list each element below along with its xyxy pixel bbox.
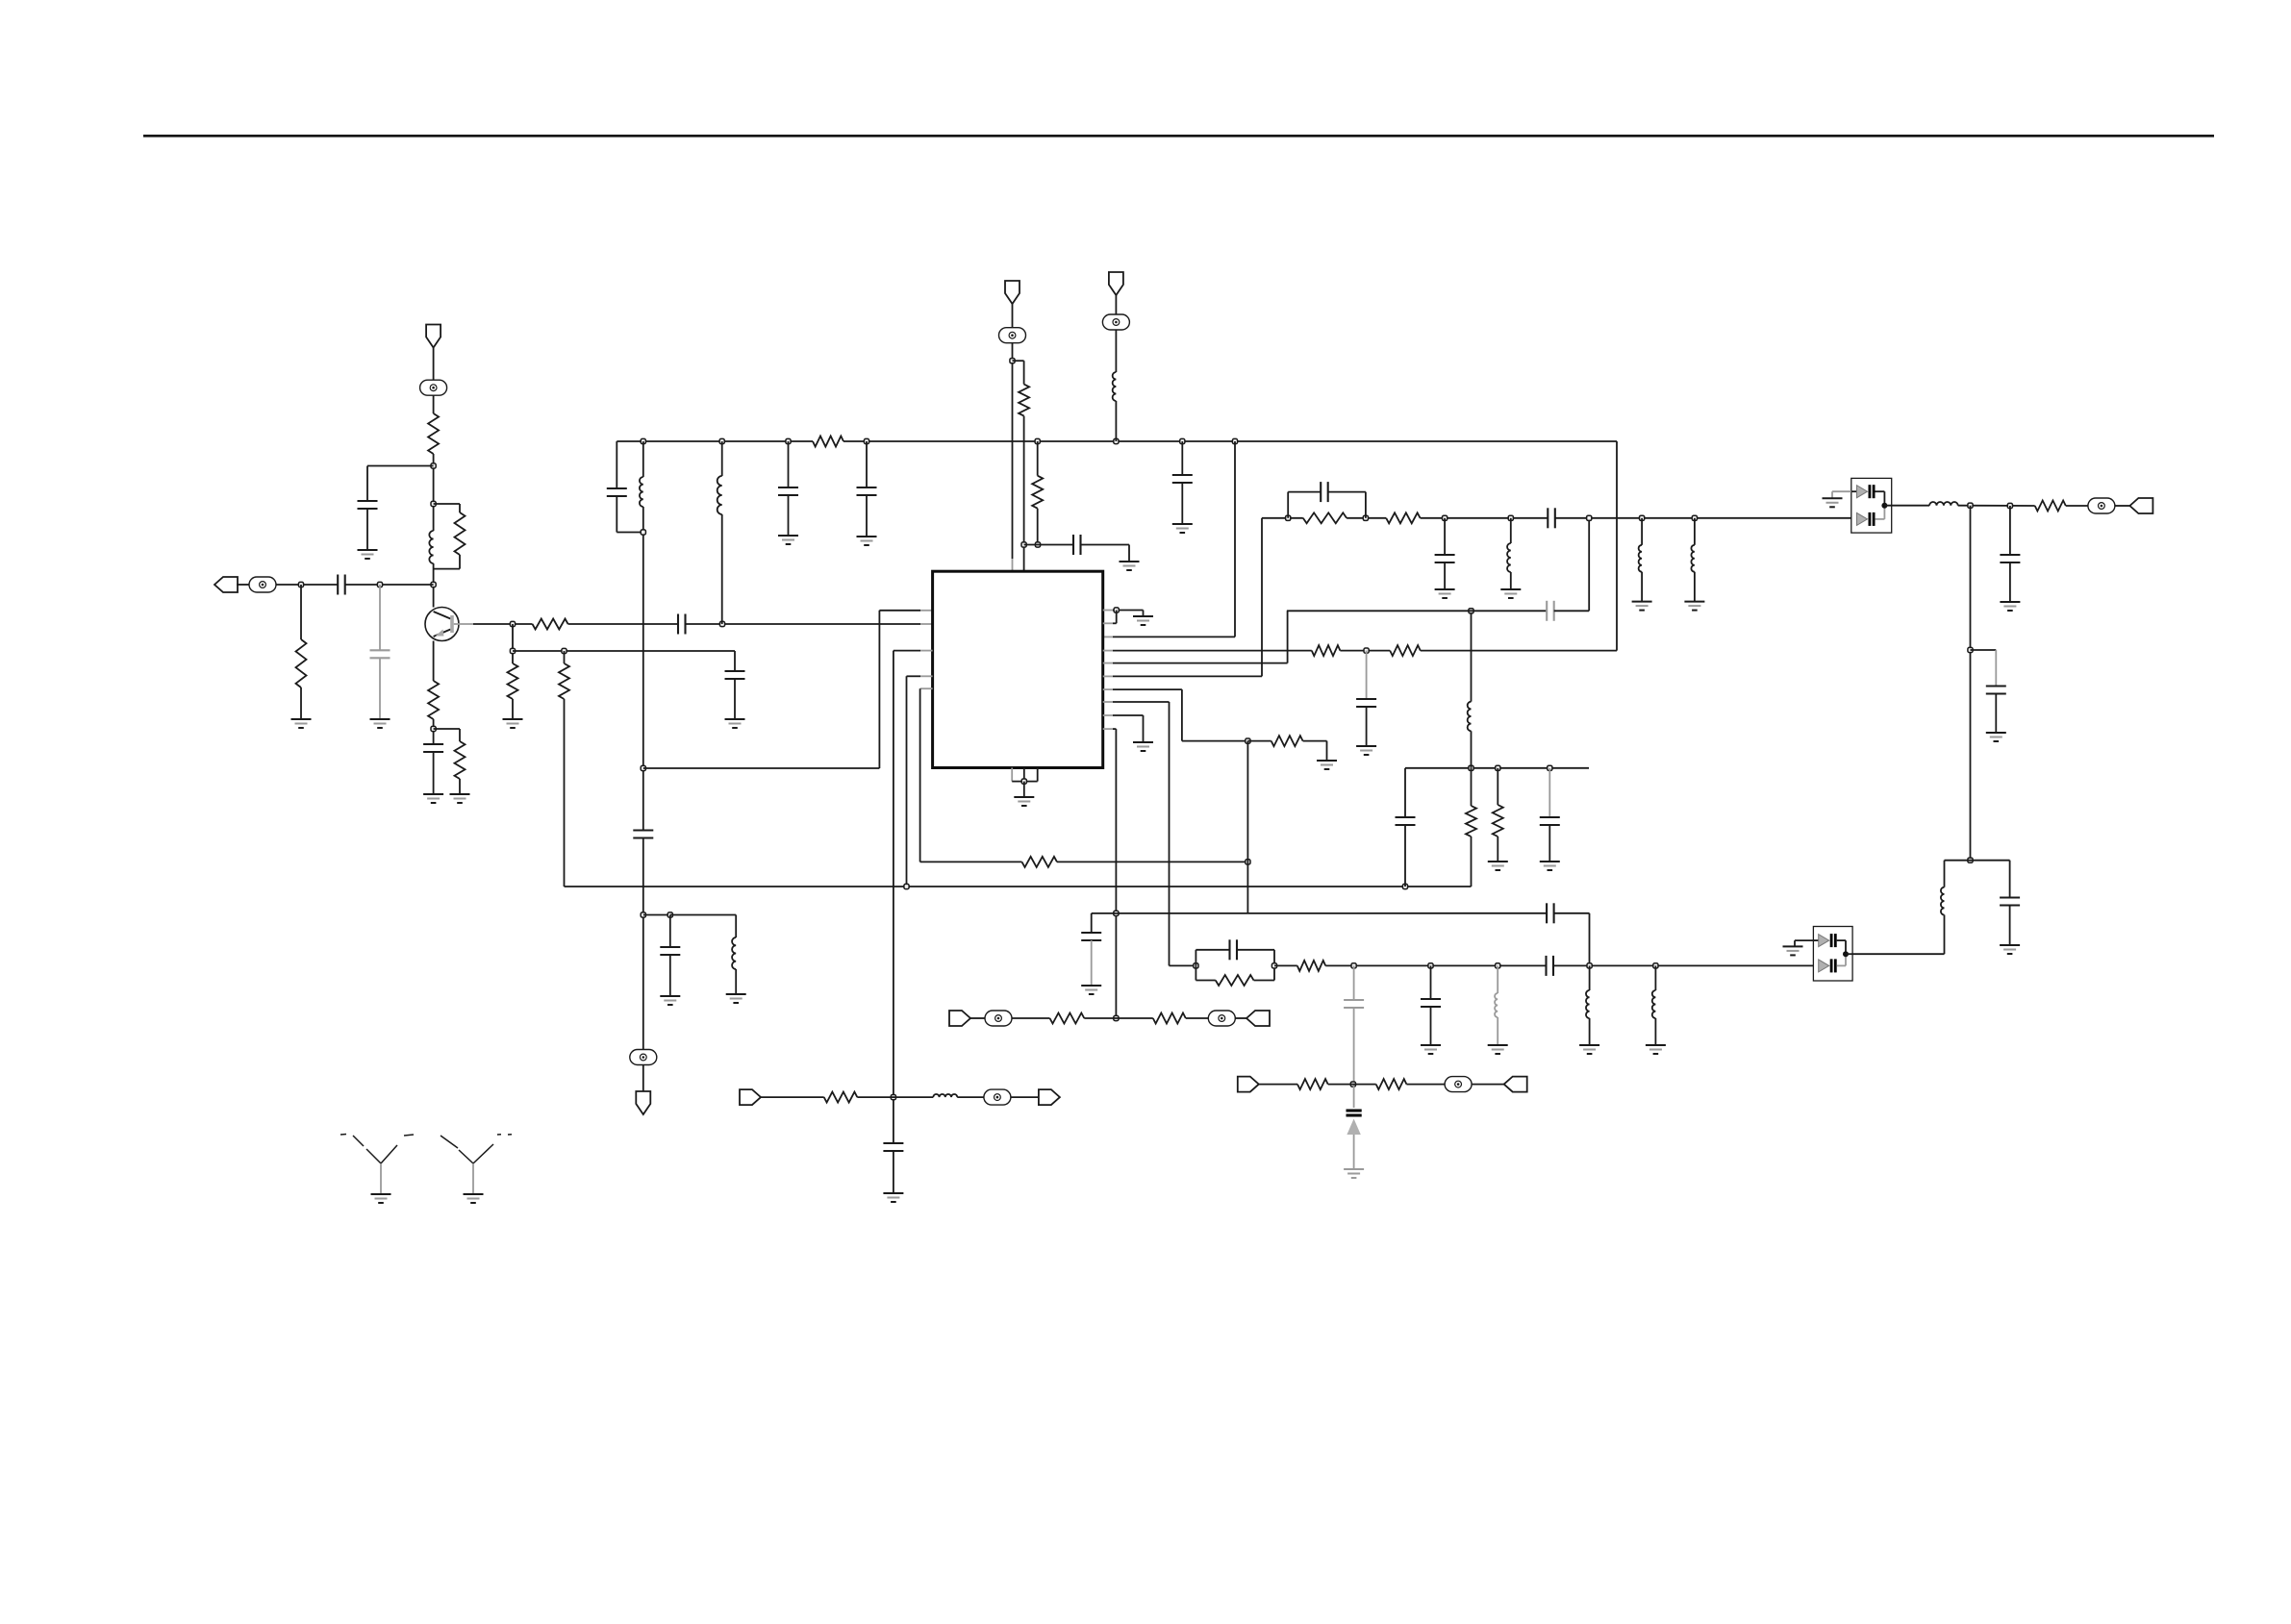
- wire: [788, 495, 790, 536]
- pin stub: [1103, 675, 1113, 677]
- node: [1363, 515, 1368, 520]
- wire: [1113, 662, 1288, 664]
- resistor R5: [428, 681, 439, 719]
- wire: [433, 348, 435, 381]
- wire: [1406, 1084, 1445, 1086]
- ground: [358, 549, 378, 551]
- capacitor C20: [1546, 601, 1548, 621]
- wire: [1143, 715, 1145, 742]
- wire: [434, 728, 460, 730]
- wire: [1012, 1017, 1050, 1019]
- capacitor C18: [1540, 816, 1560, 818]
- diode D2b: [1819, 960, 1829, 972]
- ground: [464, 1193, 484, 1195]
- resistor R27: [1153, 1013, 1186, 1024]
- wire: [670, 914, 736, 916]
- resistor R23: [824, 1092, 858, 1103]
- wire: [1113, 675, 1262, 677]
- wire: [1641, 518, 1643, 545]
- wire: [1353, 965, 1355, 1000]
- ground: [1488, 1044, 1508, 1046]
- wire: [459, 779, 461, 794]
- wire: [686, 623, 921, 625]
- ground: [1823, 497, 1843, 499]
- connector J2: [2129, 498, 2153, 513]
- test point TP1: [420, 380, 447, 395]
- wire: [433, 454, 435, 531]
- node: [1469, 765, 1473, 770]
- wire: [735, 969, 737, 994]
- node: [1114, 608, 1119, 612]
- wire: [1235, 1017, 1246, 1019]
- wire: [1471, 611, 1473, 701]
- wire: [1694, 518, 1696, 545]
- wire: [433, 395, 435, 413]
- wire bus: [843, 440, 1617, 442]
- wire emitter: [433, 641, 435, 682]
- pin stub: [1103, 728, 1113, 730]
- wire: [433, 563, 435, 608]
- wire: [1246, 741, 1248, 913]
- wire: [1555, 517, 1851, 519]
- node bus: [1114, 438, 1119, 443]
- resistor R9 on bus: [813, 437, 843, 447]
- wire: [1958, 505, 2035, 507]
- inductor L11: [1495, 993, 1498, 1017]
- inductor L6: [1507, 543, 1511, 572]
- wire: [366, 509, 368, 550]
- wire: [1353, 1008, 1355, 1085]
- wire: [919, 688, 921, 862]
- ground: [423, 793, 443, 795]
- connector J4: [740, 1089, 761, 1105]
- wire: [2009, 562, 2011, 602]
- wire: [878, 611, 880, 768]
- node: [1246, 860, 1250, 864]
- wire: [1115, 330, 1117, 372]
- wire: [1497, 768, 1498, 805]
- ground: [291, 718, 312, 720]
- wire: [1196, 980, 1215, 982]
- wire: [1641, 572, 1643, 602]
- wire: [237, 584, 249, 586]
- wire: [642, 507, 644, 831]
- capacitor C16: [1081, 932, 1101, 934]
- wire: [1328, 491, 1366, 493]
- node: [1114, 911, 1119, 915]
- inductor L4: [718, 476, 722, 514]
- ground: [1120, 561, 1140, 562]
- ground: [1684, 601, 1704, 603]
- node: [891, 1095, 895, 1100]
- wire: [1273, 965, 1275, 980]
- node D1 out: [1881, 503, 1887, 509]
- resistor R26: [1032, 476, 1043, 509]
- inductor L7: [1639, 545, 1642, 572]
- node emitter: [431, 726, 436, 731]
- wire: [1115, 729, 1117, 1018]
- resistor R1: [428, 413, 439, 454]
- node: [1653, 963, 1658, 968]
- wire: [1497, 965, 1498, 993]
- wire: [1471, 837, 1473, 887]
- pin stub: [1103, 714, 1113, 716]
- antenna ANT2: [459, 1150, 473, 1163]
- node: [2007, 503, 2012, 508]
- wire: [1497, 1017, 1498, 1045]
- pin stub bottom: [1023, 768, 1025, 782]
- wire row y950: [1116, 912, 1547, 914]
- wire: [1115, 401, 1117, 441]
- capacitor C10: [778, 487, 798, 488]
- wire: [1554, 610, 1590, 612]
- node: [510, 648, 515, 653]
- ground: [1172, 523, 1193, 525]
- wire: [1553, 964, 1813, 966]
- ground: [883, 1192, 903, 1194]
- connector J5: [1039, 1089, 1060, 1105]
- ground: [857, 536, 877, 537]
- resistor R8: [559, 663, 569, 699]
- pin stub: [920, 687, 933, 689]
- ground: [1632, 601, 1652, 603]
- resistor R2: [455, 512, 466, 555]
- wire: [1288, 491, 1321, 493]
- wire pin stub: [1103, 636, 1113, 637]
- node: [1021, 542, 1026, 547]
- node: [1246, 738, 1250, 743]
- wire: [1169, 702, 1171, 965]
- node: [1496, 765, 1500, 770]
- resistor R10: [1019, 385, 1029, 416]
- resistor R7: [508, 663, 518, 699]
- wire: [1113, 688, 1182, 690]
- wire: [1589, 1018, 1591, 1045]
- wire base out: [454, 623, 473, 625]
- ground: [1356, 745, 1376, 747]
- wire: [1261, 518, 1263, 677]
- wire: [2066, 505, 2088, 507]
- resistor R21: [1297, 961, 1325, 971]
- wire: [1430, 1007, 1432, 1045]
- node: [1010, 359, 1015, 363]
- resistor R4: [533, 619, 568, 630]
- power flag down: [636, 1091, 650, 1114]
- wire: [367, 465, 434, 467]
- wire: [1366, 651, 1368, 699]
- wire: [1353, 1085, 1355, 1108]
- wire: [866, 495, 868, 537]
- wire: [857, 1096, 933, 1098]
- wire: [1274, 964, 1297, 966]
- wire: [1247, 740, 1271, 742]
- capacitor C28: [1545, 956, 1547, 976]
- wire: [866, 441, 868, 487]
- varactor D3: [1347, 1110, 1362, 1112]
- pin stub: [1103, 650, 1113, 652]
- wire: [1510, 518, 1512, 543]
- wire: [894, 650, 920, 652]
- inductor L3: [732, 937, 736, 969]
- wire: [1970, 506, 1972, 861]
- wire pin stub: [920, 623, 933, 625]
- node: [641, 912, 645, 917]
- capacitor C8: [633, 829, 653, 831]
- wire: [1113, 610, 1144, 612]
- ground: [370, 718, 390, 720]
- wire: [434, 503, 460, 505]
- wire: [761, 1096, 824, 1098]
- wire: [1471, 731, 1473, 768]
- wire: [1012, 343, 1014, 559]
- wire: [1012, 304, 1014, 328]
- node: [1968, 858, 1973, 862]
- node: [1350, 1082, 1355, 1087]
- wire: [1589, 913, 1591, 966]
- wire in D1 top: [1851, 490, 1857, 492]
- node bus: [864, 438, 869, 443]
- wire: [1023, 782, 1025, 797]
- wire: [1143, 611, 1145, 617]
- wire: [1012, 781, 1038, 783]
- node: [562, 648, 566, 653]
- node: [1443, 515, 1448, 520]
- wire: [1365, 492, 1367, 518]
- pin stub: [1103, 622, 1113, 624]
- capacitor C22: [1320, 482, 1322, 502]
- wire: [2009, 906, 2011, 946]
- node: [1364, 648, 1369, 653]
- wire: [1884, 505, 1929, 507]
- wire: [568, 623, 678, 625]
- wire: [1497, 837, 1498, 862]
- pin stub: [1103, 662, 1113, 664]
- ground: [371, 1193, 391, 1195]
- wire: [1875, 490, 1884, 492]
- diode pair D2 (box): [1813, 927, 1852, 982]
- wire: [1995, 694, 1997, 734]
- wire: [1287, 492, 1289, 518]
- ground: [778, 535, 798, 537]
- wire: [1444, 562, 1446, 589]
- ground: [1421, 1044, 1441, 1046]
- wire: [513, 650, 735, 652]
- node bus: [1232, 438, 1237, 443]
- wire: [1113, 622, 1117, 624]
- ground: [1435, 588, 1455, 590]
- wire: [1084, 1017, 1153, 1019]
- ground: [1783, 945, 1803, 947]
- node: [1640, 515, 1645, 520]
- wire: [1091, 940, 1093, 986]
- ground: [2000, 601, 2020, 603]
- resistor R13: [1390, 645, 1421, 656]
- capacitor C2: [337, 575, 339, 595]
- node: [904, 884, 909, 888]
- test point TP8: [984, 1089, 1011, 1105]
- capacitor C3: [370, 649, 390, 651]
- node bus: [1035, 438, 1040, 443]
- wire: [642, 1065, 644, 1092]
- node: [1194, 963, 1198, 968]
- wire bus: [617, 440, 813, 442]
- diode D1a: [1857, 486, 1868, 498]
- wire: [473, 623, 533, 625]
- wire: [1366, 707, 1368, 746]
- wire: [1430, 965, 1432, 999]
- node D2 out: [1843, 951, 1849, 957]
- wire: [564, 699, 566, 887]
- wire: [1875, 518, 1884, 520]
- antenna ANT1: [366, 1149, 381, 1163]
- wire: [1328, 1084, 1376, 1086]
- wire: [616, 441, 617, 488]
- diode D2a: [1819, 935, 1829, 947]
- capacitor C19: [1546, 903, 1548, 923]
- node: [1508, 515, 1513, 520]
- wire: [1945, 860, 1971, 862]
- test point TP2: [249, 577, 276, 592]
- wire: [1091, 913, 1093, 933]
- wire: [1057, 861, 1247, 862]
- wire: [616, 496, 617, 533]
- node: [1587, 515, 1592, 520]
- pin stub: [920, 650, 933, 652]
- wire: [643, 914, 670, 916]
- inductor L12: [1586, 990, 1590, 1018]
- wire: [1237, 949, 1274, 951]
- node: [1114, 1015, 1119, 1020]
- capacitor C29: [1344, 999, 1364, 1001]
- capacitor C23: [1435, 554, 1455, 556]
- wire: [1113, 714, 1144, 716]
- wire: [1182, 740, 1248, 742]
- resistor R18: [1386, 512, 1420, 523]
- resistor R14: [1271, 736, 1303, 746]
- wire: [1995, 650, 1997, 687]
- wire pin stub: [920, 610, 933, 612]
- wire: [379, 585, 381, 650]
- test point TP7: [985, 1011, 1012, 1026]
- wire: [906, 676, 908, 887]
- node bus: [1180, 438, 1185, 443]
- resistor R19: [2035, 501, 2066, 512]
- power flag P3: [1109, 272, 1123, 295]
- capacitor C30: [1421, 998, 1441, 1000]
- wire: [734, 651, 736, 671]
- op-amp U1 (main IC): [933, 571, 1103, 767]
- wire: [1115, 295, 1117, 314]
- inductor L15: [1468, 702, 1472, 732]
- wire: [1589, 965, 1591, 990]
- wire row y922: [565, 886, 1472, 887]
- wire: [970, 1017, 985, 1019]
- node: [1496, 963, 1500, 968]
- ground: [1488, 861, 1508, 862]
- wire: [1347, 517, 1386, 519]
- wire: [669, 955, 671, 996]
- test point TP5: [1102, 314, 1129, 330]
- wire: [1404, 825, 1406, 887]
- ground: [450, 793, 470, 795]
- resistor R12: [1312, 645, 1341, 656]
- wire: [459, 555, 461, 569]
- node: [641, 765, 645, 770]
- capacitor C1: [358, 500, 378, 502]
- capacitor C7: [607, 487, 627, 489]
- node base: [431, 582, 436, 587]
- wire: [1181, 689, 1183, 741]
- wire: [512, 624, 514, 663]
- wire: [734, 679, 736, 719]
- connector J3: [949, 1011, 970, 1026]
- node: [298, 582, 303, 587]
- capacitor C6: [725, 670, 745, 672]
- node: [1402, 884, 1407, 888]
- resistor R15: [1466, 806, 1476, 837]
- wire: [1340, 650, 1390, 652]
- node: [1968, 503, 1973, 508]
- node: [1286, 515, 1291, 520]
- wire: [1588, 518, 1590, 612]
- wire: [1037, 509, 1039, 545]
- diode pair D1 (box): [1851, 478, 1892, 533]
- ground: [1081, 985, 1101, 987]
- node: [1351, 963, 1356, 968]
- node collector-supply: [431, 463, 436, 468]
- wire: [1195, 965, 1196, 980]
- ground: [1540, 861, 1560, 862]
- wire: [1092, 912, 1117, 914]
- wire: [300, 585, 302, 639]
- wire row y635: [1287, 610, 1547, 612]
- test point TP9: [1445, 1077, 1472, 1092]
- node bus: [719, 438, 724, 443]
- capacitor C4: [677, 614, 679, 635]
- wire: [1510, 572, 1512, 589]
- inductor L1: [429, 531, 433, 563]
- node: [1428, 963, 1433, 968]
- ground: [1344, 1168, 1364, 1170]
- wire: [1254, 980, 1275, 982]
- wire: [433, 719, 435, 744]
- node: [1548, 765, 1552, 770]
- pin stub bottom: [1037, 768, 1039, 782]
- wire: [1113, 728, 1116, 730]
- wire: [1471, 768, 1473, 806]
- wire: [721, 441, 723, 476]
- wire: [1181, 441, 1183, 475]
- wire: [1113, 701, 1170, 703]
- wire: [1325, 964, 1546, 966]
- resistor R25: [1376, 1079, 1407, 1089]
- wire: [893, 651, 894, 1143]
- ground: [1646, 1044, 1666, 1046]
- top rule: [143, 135, 2214, 137]
- inductor L2: [640, 477, 643, 507]
- node: [1692, 515, 1697, 520]
- connector J6: [1238, 1077, 1259, 1092]
- wire row y799: [1405, 767, 1589, 769]
- wire: [1444, 518, 1446, 555]
- pin stub: [1103, 688, 1113, 690]
- wire: [1273, 950, 1275, 966]
- ground: [1133, 741, 1153, 743]
- wire: [1548, 825, 1550, 862]
- pin stub: [1103, 610, 1113, 612]
- wire: [1024, 544, 1073, 546]
- wire: [1616, 441, 1618, 651]
